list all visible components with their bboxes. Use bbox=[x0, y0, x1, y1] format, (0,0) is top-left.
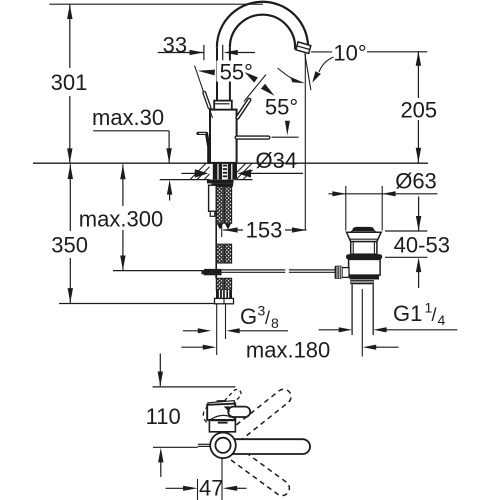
svg-text:Ø63: Ø63 bbox=[395, 169, 437, 194]
drain body bbox=[335, 227, 383, 284]
hose segment 2 bbox=[216, 244, 231, 263]
lock band bbox=[350, 275, 379, 279]
10 deg leader bbox=[319, 57, 334, 72]
svg-text:/: / bbox=[265, 308, 270, 328]
wedge W2b bbox=[261, 84, 275, 96]
svg-text:153: 153 bbox=[246, 218, 283, 243]
drain axis line bbox=[361, 289, 363, 357]
svg-text:max.180: max.180 bbox=[246, 337, 330, 362]
flange bbox=[347, 232, 382, 241]
handle cap bbox=[208, 401, 235, 406]
dim 205 ref line bbox=[367, 51, 427, 53]
rod in top view bbox=[198, 443, 212, 445]
pop-up rod guide tube bbox=[209, 185, 217, 211]
halo 55 deg 1 bbox=[217, 61, 257, 82]
max.300 bottom ref line bbox=[113, 270, 203, 272]
svg-text:205: 205 bbox=[400, 97, 437, 122]
countertop hatch bbox=[190, 163, 253, 179]
construction line B bbox=[244, 75, 266, 102]
solid spout arm bbox=[223, 439, 310, 454]
top reference line bbox=[49, 3, 263, 5]
svg-text:110: 110 bbox=[146, 404, 181, 429]
svg-text:301: 301 bbox=[51, 70, 88, 95]
pop-up rod upper part bbox=[198, 133, 209, 162]
flexible hoses (braided) segment 1 bbox=[216, 187, 231, 224]
wedge W1 bbox=[198, 70, 216, 76]
dim max.30 bbox=[93, 130, 169, 132]
top ref line bbox=[153, 386, 236, 388]
wedge W2a bbox=[245, 72, 258, 83]
10 deg lines bbox=[304, 54, 306, 230]
axis tick bbox=[221, 223, 223, 237]
tailpipe bbox=[351, 285, 353, 336]
dim O34 bbox=[181, 172, 196, 174]
lever raised left bbox=[204, 93, 209, 108]
hose end fittings bbox=[216, 290, 232, 298]
seal ring bbox=[346, 254, 382, 259]
spout arcs bbox=[217, 2, 308, 54]
neck bbox=[351, 242, 377, 255]
left knob bbox=[342, 268, 349, 278]
dim 153 bbox=[223, 229, 306, 231]
plug dome bbox=[352, 227, 374, 231]
connection nuts bbox=[215, 298, 234, 303]
pop-up rod vertical below counter bbox=[215, 212, 217, 277]
dim 33 bbox=[158, 52, 204, 54]
lever raised right bbox=[238, 100, 250, 118]
svg-text:350: 350 bbox=[51, 233, 88, 258]
dim 350 line bbox=[69, 164, 71, 303]
svg-text:Ø34: Ø34 bbox=[256, 148, 298, 173]
dim 40-53 bbox=[418, 197, 420, 231]
dim O63 bbox=[329, 193, 438, 195]
dashed spout arm lower bbox=[230, 447, 292, 498]
supply pipes bbox=[216, 304, 218, 355]
svg-text:/: / bbox=[432, 305, 437, 325]
faucet shank in hole bbox=[210, 163, 238, 179]
handle grip bbox=[228, 407, 250, 417]
svg-text:55°: 55° bbox=[265, 95, 298, 120]
svg-text:max.300: max.300 bbox=[79, 207, 163, 232]
body below bbox=[209, 420, 235, 431]
locknut bbox=[350, 280, 374, 284]
dim 110 lower arrow bbox=[158, 448, 163, 463]
svg-text:4: 4 bbox=[438, 312, 446, 328]
drain: vertical ext lines bbox=[345, 186, 347, 231]
halo 55 deg 2 bbox=[262, 95, 301, 117]
dim G3/8 bbox=[183, 330, 199, 332]
horizontal pop-up rod bbox=[204, 269, 222, 275]
dim 47 bbox=[197, 479, 199, 500]
riser pipe bbox=[216, 47, 218, 100]
svg-text:33: 33 bbox=[163, 33, 187, 58]
countertop bottom line bbox=[160, 179, 253, 181]
dim max.300 line bbox=[122, 165, 124, 271]
handle box bbox=[207, 404, 235, 420]
svg-text:47: 47 bbox=[199, 476, 223, 500]
neck dome arc bbox=[211, 415, 236, 419]
lever extension line bbox=[272, 136, 299, 138]
washer + nut under counter bbox=[207, 180, 234, 184]
bottom ref line (350) bbox=[59, 303, 215, 305]
55 deg construction line A bbox=[195, 66, 213, 119]
bottom ref line bbox=[153, 446, 198, 448]
dashed spout arm upper bbox=[229, 386, 294, 442]
dim G1 1/4 bbox=[319, 329, 340, 331]
dim max.180 bbox=[181, 346, 203, 348]
dim 301 line bbox=[69, 4, 71, 163]
body bbox=[349, 259, 381, 275]
svg-text:G: G bbox=[240, 304, 257, 329]
dashed lever swing arc (left) bbox=[203, 406, 208, 423]
svg-text:8: 8 bbox=[271, 315, 279, 331]
countertop top line bbox=[33, 162, 428, 164]
dim 110 upper bbox=[159, 354, 161, 387]
svg-text:G1: G1 bbox=[393, 301, 422, 326]
svg-text:max.30: max.30 bbox=[92, 105, 164, 130]
svg-text:55°: 55° bbox=[220, 60, 253, 85]
ref line from tip to 10deg text bbox=[311, 51, 332, 53]
dashed ghost lever up-right bbox=[224, 388, 242, 407]
svg-text:10°: 10° bbox=[333, 40, 366, 65]
aerator tip bbox=[296, 42, 311, 54]
faucet body bbox=[210, 110, 237, 163]
wedge W3 bbox=[285, 121, 290, 136]
valve circles bbox=[210, 433, 236, 459]
lever horizontal bbox=[237, 135, 269, 139]
hose segment 3 bbox=[216, 278, 231, 290]
cartridge bbox=[214, 101, 232, 110]
svg-text:40-53: 40-53 bbox=[394, 233, 450, 258]
